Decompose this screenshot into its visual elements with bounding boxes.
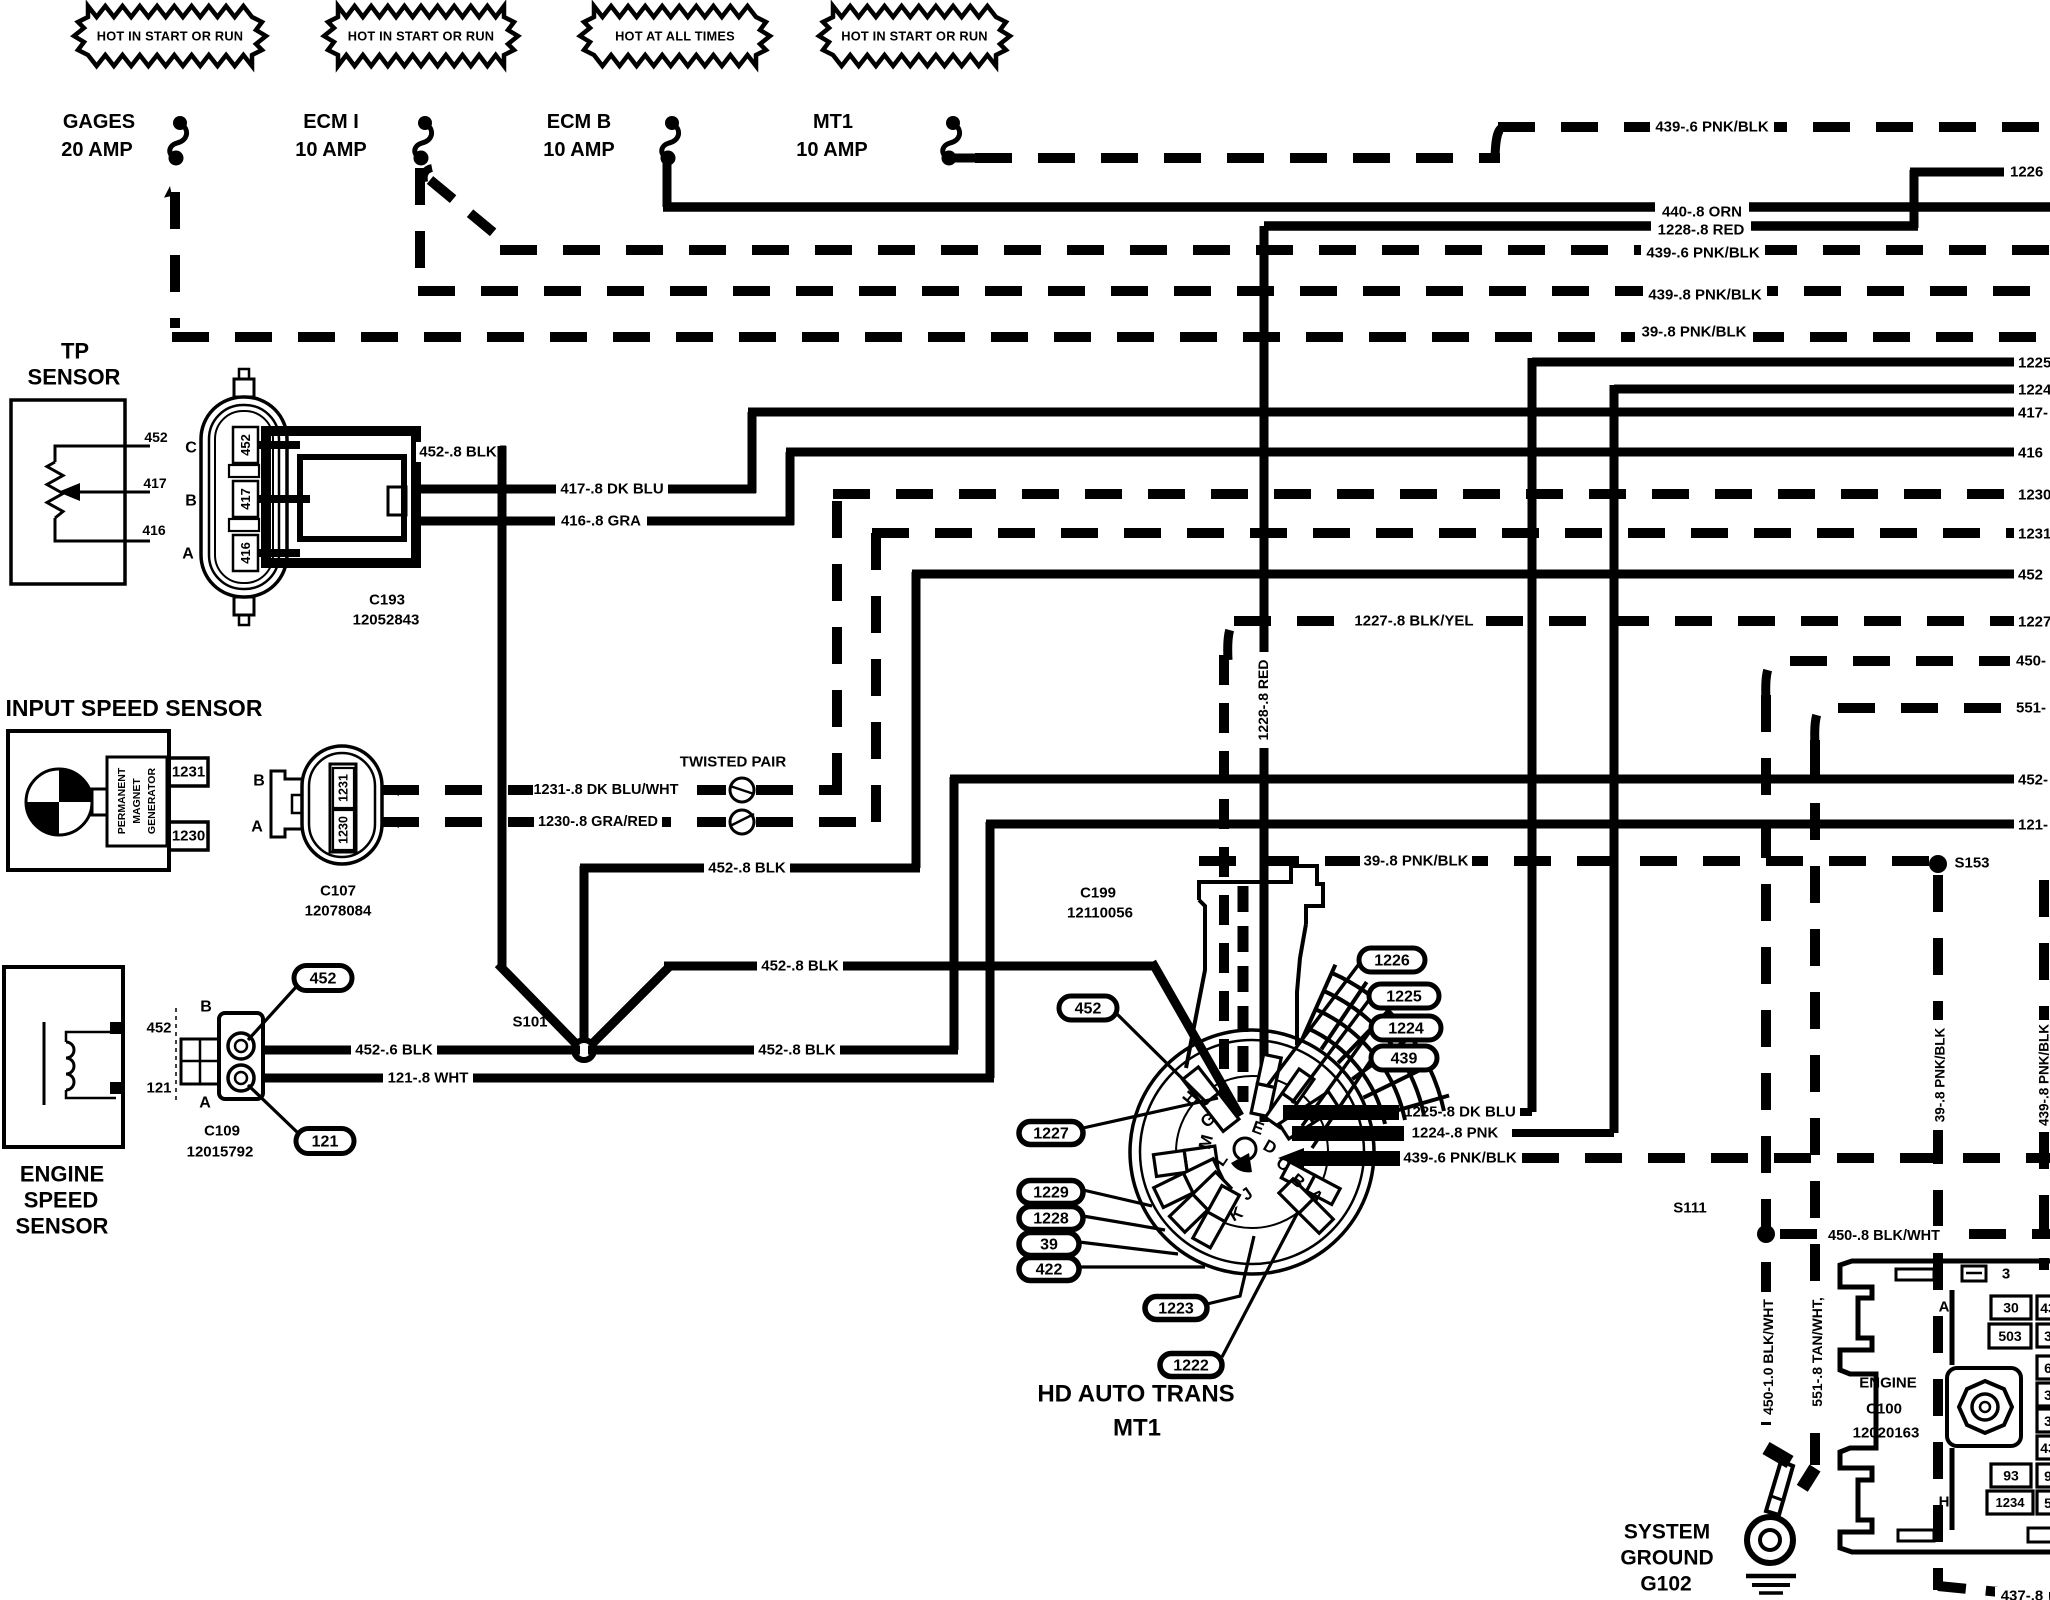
svg-text:1228-.8 RED: 1228-.8 RED: [1658, 222, 1745, 239]
svg-text:416: 416: [142, 522, 166, 538]
svg-text:439-.8 PNK/BLK: 439-.8 PNK/BLK: [1648, 287, 1762, 304]
svg-text:GAGES: GAGES: [63, 111, 135, 133]
svg-text:417: 417: [143, 475, 167, 491]
svg-text:HD AUTO TRANS: HD AUTO TRANS: [1037, 1381, 1234, 1408]
svg-text:HOT AT ALL TIMES: HOT AT ALL TIMES: [615, 29, 735, 44]
svg-text:9: 9: [2044, 1468, 2050, 1484]
svg-text:450-1.0 BLK/WHT: 450-1.0 BLK/WHT: [1760, 1299, 1776, 1415]
svg-text:B: B: [200, 999, 212, 1016]
svg-text:440-.8 ORN: 440-.8 ORN: [1662, 204, 1742, 221]
svg-text:C100: C100: [1866, 1401, 1902, 1418]
svg-text:INPUT SPEED SENSOR: INPUT SPEED SENSOR: [6, 695, 263, 721]
svg-text:GROUND: GROUND: [1620, 1547, 1713, 1570]
svg-text:1224: 1224: [2018, 382, 2050, 399]
svg-text:HOT IN START OR RUN: HOT IN START OR RUN: [97, 29, 243, 44]
svg-text:C109: C109: [204, 1123, 240, 1140]
svg-text:1234: 1234: [1996, 1495, 2026, 1510]
svg-text:452-: 452-: [2018, 772, 2048, 789]
svg-text:1231: 1231: [172, 764, 205, 781]
svg-text:417-: 417-: [2018, 405, 2048, 422]
svg-text:439-.6 PNK/BLK: 439-.6 PNK/BLK: [1403, 1150, 1517, 1167]
svg-text:39-.8 PNK/BLK: 39-.8 PNK/BLK: [1363, 853, 1468, 870]
svg-text:MT1: MT1: [813, 111, 853, 133]
svg-text:A: A: [182, 546, 194, 563]
svg-text:B: B: [253, 773, 265, 790]
svg-text:43: 43: [2040, 1440, 2050, 1456]
svg-text:10 AMP: 10 AMP: [543, 139, 615, 161]
svg-text:B: B: [185, 493, 197, 510]
svg-text:1222: 1222: [1173, 1358, 1209, 1375]
svg-text:1224-.8 PNK: 1224-.8 PNK: [1412, 1125, 1499, 1142]
svg-text:39-.8 PNK/BLK: 39-.8 PNK/BLK: [1641, 324, 1746, 341]
svg-text:1227-.8 BLK/YEL: 1227-.8 BLK/YEL: [1354, 613, 1473, 630]
svg-text:C199: C199: [1080, 885, 1116, 902]
svg-text:1227-: 1227-: [2018, 614, 2050, 631]
svg-text:422: 422: [1036, 1262, 1063, 1279]
svg-text:GENERATOR: GENERATOR: [146, 768, 158, 835]
svg-text:439-.6 PNK/BLK: 439-.6 PNK/BLK: [1646, 245, 1760, 262]
svg-text:452-.8 BLK: 452-.8 BLK: [758, 1042, 836, 1059]
svg-text:5: 5: [2044, 1495, 2050, 1511]
svg-text:417-.8 DK BLU: 417-.8 DK BLU: [560, 481, 663, 498]
svg-text:30: 30: [2003, 1300, 2019, 1316]
svg-text:MAGNET: MAGNET: [131, 778, 143, 824]
svg-text:12110056: 12110056: [1067, 905, 1133, 922]
svg-text:3: 3: [2002, 1266, 2010, 1283]
svg-text:1231-: 1231-: [2018, 526, 2050, 543]
svg-text:1228: 1228: [1033, 1211, 1069, 1228]
svg-text:1225: 1225: [2018, 355, 2050, 372]
svg-text:1230-.8 GRA/RED: 1230-.8 GRA/RED: [538, 814, 658, 830]
svg-text:PERMANENT: PERMANENT: [116, 767, 128, 834]
svg-text:C: C: [185, 440, 197, 457]
svg-text:121: 121: [312, 1134, 339, 1151]
svg-text:ENGINE: ENGINE: [20, 1162, 104, 1187]
svg-text:ENGINE: ENGINE: [1859, 1375, 1917, 1392]
svg-text:12052843: 12052843: [353, 612, 420, 629]
svg-text:12078084: 12078084: [305, 903, 372, 920]
svg-text:452-.8 BLK: 452-.8 BLK: [761, 958, 839, 975]
svg-text:SENSOR: SENSOR: [16, 1214, 109, 1239]
svg-text:551-: 551-: [2016, 700, 2046, 717]
svg-text:416: 416: [2018, 445, 2043, 462]
svg-text:C193: C193: [369, 592, 405, 609]
svg-text:1229: 1229: [1033, 1185, 1069, 1202]
svg-text:439-.8 PNK/BLK: 439-.8 PNK/BLK: [2037, 1024, 2050, 1126]
svg-text:20 AMP: 20 AMP: [61, 139, 133, 161]
svg-text:1228-.8 RED: 1228-.8 RED: [1255, 660, 1271, 741]
svg-text:1226: 1226: [1374, 953, 1410, 970]
svg-text:S101: S101: [512, 1014, 547, 1031]
svg-text:452: 452: [1075, 1001, 1102, 1018]
svg-text:452-.8 BLK: 452-.8 BLK: [419, 444, 497, 461]
svg-text:12020163: 12020163: [1853, 1425, 1920, 1442]
svg-text:SENSOR: SENSOR: [28, 365, 121, 390]
svg-text:417: 417: [238, 488, 253, 510]
svg-text:SYSTEM: SYSTEM: [1624, 1521, 1710, 1544]
svg-text:452: 452: [144, 429, 168, 445]
svg-text:ECM B: ECM B: [547, 111, 611, 133]
svg-text:10 AMP: 10 AMP: [295, 139, 367, 161]
svg-text:1231: 1231: [337, 774, 351, 802]
svg-text:TWISTED PAIR: TWISTED PAIR: [680, 754, 787, 771]
svg-text:93: 93: [2003, 1468, 2019, 1484]
svg-text:6: 6: [2044, 1360, 2050, 1376]
svg-text:416: 416: [238, 542, 253, 564]
svg-text:43: 43: [2040, 1300, 2050, 1316]
svg-text:10 AMP: 10 AMP: [796, 139, 868, 161]
svg-text:551-.8 TAN/WHT,: 551-.8 TAN/WHT,: [1809, 1297, 1825, 1406]
svg-text:121: 121: [146, 1080, 171, 1097]
svg-text:A: A: [251, 819, 263, 836]
svg-text:452: 452: [2018, 567, 2043, 584]
svg-text:1223: 1223: [1158, 1301, 1194, 1318]
svg-text:S111: S111: [1673, 1200, 1706, 1217]
svg-text:452-.6 BLK: 452-.6 BLK: [355, 1042, 433, 1059]
svg-text:1230-: 1230-: [2018, 487, 2050, 504]
svg-text:SPEED: SPEED: [24, 1188, 99, 1213]
svg-text:450-.8 BLK/WHT: 450-.8 BLK/WHT: [1828, 1228, 1940, 1244]
svg-text:452-.8 BLK: 452-.8 BLK: [708, 860, 786, 877]
svg-text:439: 439: [1391, 1051, 1418, 1068]
svg-text:HOT IN START OR RUN: HOT IN START OR RUN: [348, 29, 494, 44]
svg-text:G102: G102: [1640, 1573, 1691, 1596]
svg-text:39-.8 PNK/BLK: 39-.8 PNK/BLK: [1933, 1027, 1948, 1122]
svg-text:C107: C107: [320, 883, 356, 900]
svg-text:1231-.8 DK BLU/WHT: 1231-.8 DK BLU/WHT: [533, 782, 678, 798]
svg-text:A: A: [199, 1095, 211, 1112]
svg-text:1224: 1224: [1388, 1021, 1424, 1038]
svg-text:1230: 1230: [172, 828, 205, 845]
svg-text:452: 452: [146, 1020, 171, 1037]
svg-text:3: 3: [2044, 1413, 2050, 1429]
svg-text:H: H: [1939, 1494, 1950, 1511]
svg-text:1227: 1227: [1033, 1126, 1069, 1143]
svg-text:437-.8: 437-.8: [2001, 1588, 2044, 1600]
svg-text:TP: TP: [61, 339, 89, 364]
svg-text:121-: 121-: [2018, 817, 2048, 834]
svg-text:12015792: 12015792: [187, 1144, 254, 1161]
svg-text:39: 39: [1040, 1237, 1058, 1254]
svg-text:S153: S153: [1954, 855, 1989, 872]
svg-text:450-: 450-: [2016, 653, 2046, 670]
svg-text:121-.8 WHT: 121-.8 WHT: [388, 1070, 469, 1087]
svg-text:ECM I: ECM I: [303, 111, 359, 133]
svg-text:A: A: [1939, 1299, 1950, 1316]
svg-text:416-.8 GRA: 416-.8 GRA: [561, 513, 641, 530]
svg-text:3: 3: [2044, 1387, 2050, 1403]
svg-text:1225: 1225: [1386, 989, 1422, 1006]
svg-text:HOT IN START OR RUN: HOT IN START OR RUN: [841, 29, 987, 44]
svg-text:MT1: MT1: [1113, 1415, 1161, 1442]
svg-text:3: 3: [2044, 1328, 2050, 1344]
svg-text:1226: 1226: [2010, 164, 2043, 181]
svg-text:452: 452: [238, 434, 253, 456]
svg-text:503: 503: [1998, 1328, 2022, 1344]
svg-text:439-.6 PNK/BLK: 439-.6 PNK/BLK: [1655, 119, 1769, 136]
svg-text:452: 452: [310, 971, 337, 988]
svg-text:1230: 1230: [337, 816, 351, 844]
